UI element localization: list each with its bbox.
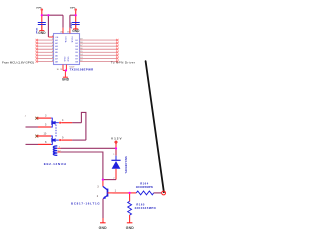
relay pin 5 wire [26,126,52,128]
svg-text:GND: GND [62,78,70,82]
wire common link up-over-down [81,112,86,140]
pin OE stub [48,36,53,38]
svg-text:4: 4 [52,45,53,47]
capacitor C1 100nF plates [38,23,46,25]
wire power rail 2 [70,14,76,16]
power port VCCB net at top [70,7,77,28]
relay pin 10 contact lead [51,136,52,138]
svg-text:11: 11 [60,69,62,71]
X dangling markers left [36,39,38,63]
svg-text:R165: R165 [136,203,145,207]
svg-text:13: 13 [80,57,82,59]
svg-text:VCCB: VCCB [70,36,72,43]
junction dot rail1 at OE drop [47,14,49,16]
relay coil pin 12 stub [57,151,60,153]
wire VCCA drop [62,15,64,28]
ground symbol under C1 [38,31,46,35]
svg-text:V12V: V12V [111,136,122,140]
capacitor C2 100nF plates [72,23,80,25]
resistor R165 zigzag [128,201,132,215]
wire power rail 1 [42,14,63,16]
port circle at R164 right [162,191,166,195]
wire to ground under U1 [64,70,66,77]
svg-text:19: 19 [67,32,69,34]
svg-text:OE: OE [55,37,59,39]
wire C1 to ground [41,25,43,31]
transistor Q1 BC817 [103,186,108,199]
ground symbol under C2 [72,29,80,33]
U1 right pin numbers [80,39,82,62]
wire V12V junction to diode cathode [115,148,117,155]
X dangling markers right [116,39,118,63]
svg-text:BC817-16LT1G: BC817-16LT1G [71,202,100,206]
wire coil pin1 to V12V junction [61,147,117,149]
svg-text:19: 19 [80,39,82,41]
junction dot rail1 at power pin [41,14,43,16]
junction dot bottom gnd join [65,69,67,71]
resistor R165 wire bottom [129,215,131,222]
pin base wire stub [108,192,113,194]
relay common pin 9 stub [55,139,59,141]
power port V12V [111,136,122,148]
relay mechanical link dashed [55,125,57,138]
svg-text:From MCU (1.8V GPIO): From MCU (1.8V GPIO) [2,61,34,65]
relay contact pin 3 no-connect X [35,117,38,120]
svg-text:16: 16 [80,48,82,50]
relay pin 9 connection circle [59,139,61,141]
wire anode to collector junction [103,179,116,181]
wire coil pin12 to collector [61,152,103,180]
svg-text:EE2-12NUH: EE2-12NUH [44,162,67,166]
relay pin 10 wire [37,135,51,137]
svg-text:7: 7 [52,54,53,56]
pin numbers bottom GND pins [57,69,63,71]
U1 left side input wires A1-A8 with no-connect X marks [37,40,54,61]
junction dot collector node [102,179,104,181]
svg-text:17: 17 [80,45,82,47]
svg-text:GND: GND [99,226,108,230]
relay coil [53,146,57,155]
U1 left pin numbers [52,39,53,62]
U1 right side output wires B1-B8 [80,40,118,61]
svg-text:22K0345MPN: 22K0345MPN [135,206,156,210]
svg-text:To NPN Driver: To NPN Driver [111,61,135,65]
relay armature top contact [51,120,55,125]
relay pin 4 connection circle [59,122,61,124]
svg-text:GND: GND [67,57,69,62]
svg-text:VCCA: VCCA [64,36,67,43]
wire C2 to ground [75,25,77,29]
wire emitter down [102,199,104,223]
IC U1 TXS0108EPWR level shifter body [54,34,80,65]
wire base to R164 junction [113,192,130,194]
relay contact pin 10 no-connect X [35,135,38,138]
svg-text:14: 14 [80,54,82,56]
svg-text:GND: GND [38,31,46,35]
wire pin4 to link [61,122,72,124]
power port VCCA net at top [36,7,43,30]
relay pin 8 contact lead [51,142,52,145]
svg-text:GND: GND [126,226,135,230]
junction dot rail2 [75,14,77,16]
U1 bottom GND pins [63,65,66,71]
svg-text:SMA4009PL: SMA4009PL [124,156,128,174]
diode D1 flyback [111,160,120,169]
pin VCCA stub [62,28,64,34]
svg-text:8: 8 [52,57,53,59]
resistor R164 wire right [154,192,162,194]
svg-text:1: 1 [52,35,53,37]
wire VCCB drop [69,15,71,28]
ground symbol at R165 [126,223,135,230]
svg-text:1: 1 [77,32,78,34]
svg-text:1: 1 [113,154,114,156]
svg-text:100nF: 100nF [70,22,72,29]
svg-text:5: 5 [52,48,53,50]
ground symbol at emitter [99,223,108,230]
wire collector stub [102,180,104,187]
svg-text:R164: R164 [140,181,149,185]
junction dot V12V coil [115,147,117,149]
svg-text:TXS0108EPWR: TXS0108EPWR [70,67,94,71]
relay common pin 4 stub [55,122,59,124]
junction dot base node [129,192,131,194]
relay pin 5 contact lead [51,124,52,127]
relay pin 8 wire [26,143,52,145]
svg-text:2: 2 [52,39,53,41]
relay armature bottom contact [51,138,55,143]
svg-text:J: J [25,115,26,117]
svg-text:GND: GND [63,57,65,62]
svg-text:15: 15 [80,51,82,53]
resistor R164 wire left [130,192,137,194]
annotation arrow line from driver outputs to base port [146,61,164,192]
svg-text:1K0805MPN: 1K0805MPN [136,185,153,189]
wire OE drop [47,15,49,37]
svg-text:9: 9 [52,60,53,62]
wire diode anode down [115,169,117,180]
relay coil pin 1 stub [57,147,60,149]
relay pin 3 wire [37,117,51,119]
relay pin 3 contact lead [51,118,52,121]
svg-text:6: 6 [52,51,53,53]
pin VCCB stub [69,28,71,34]
svg-text:10: 10 [57,69,59,71]
svg-text:20: 20 [60,32,62,34]
wire link to pin 9 [61,139,72,141]
svg-text:18: 18 [80,42,82,44]
svg-text:12: 12 [80,60,82,62]
svg-text:100nF: 100nF [35,28,37,35]
U1 left pin-name labels OE A1-A8 [55,37,59,64]
svg-text:3: 3 [52,42,53,44]
resistor R165 wire top [129,193,131,201]
resistor R164 zigzag [136,191,153,195]
U1 right pin-name labels B1-B8 [75,40,78,63]
ground symbol under U1 [62,77,70,81]
